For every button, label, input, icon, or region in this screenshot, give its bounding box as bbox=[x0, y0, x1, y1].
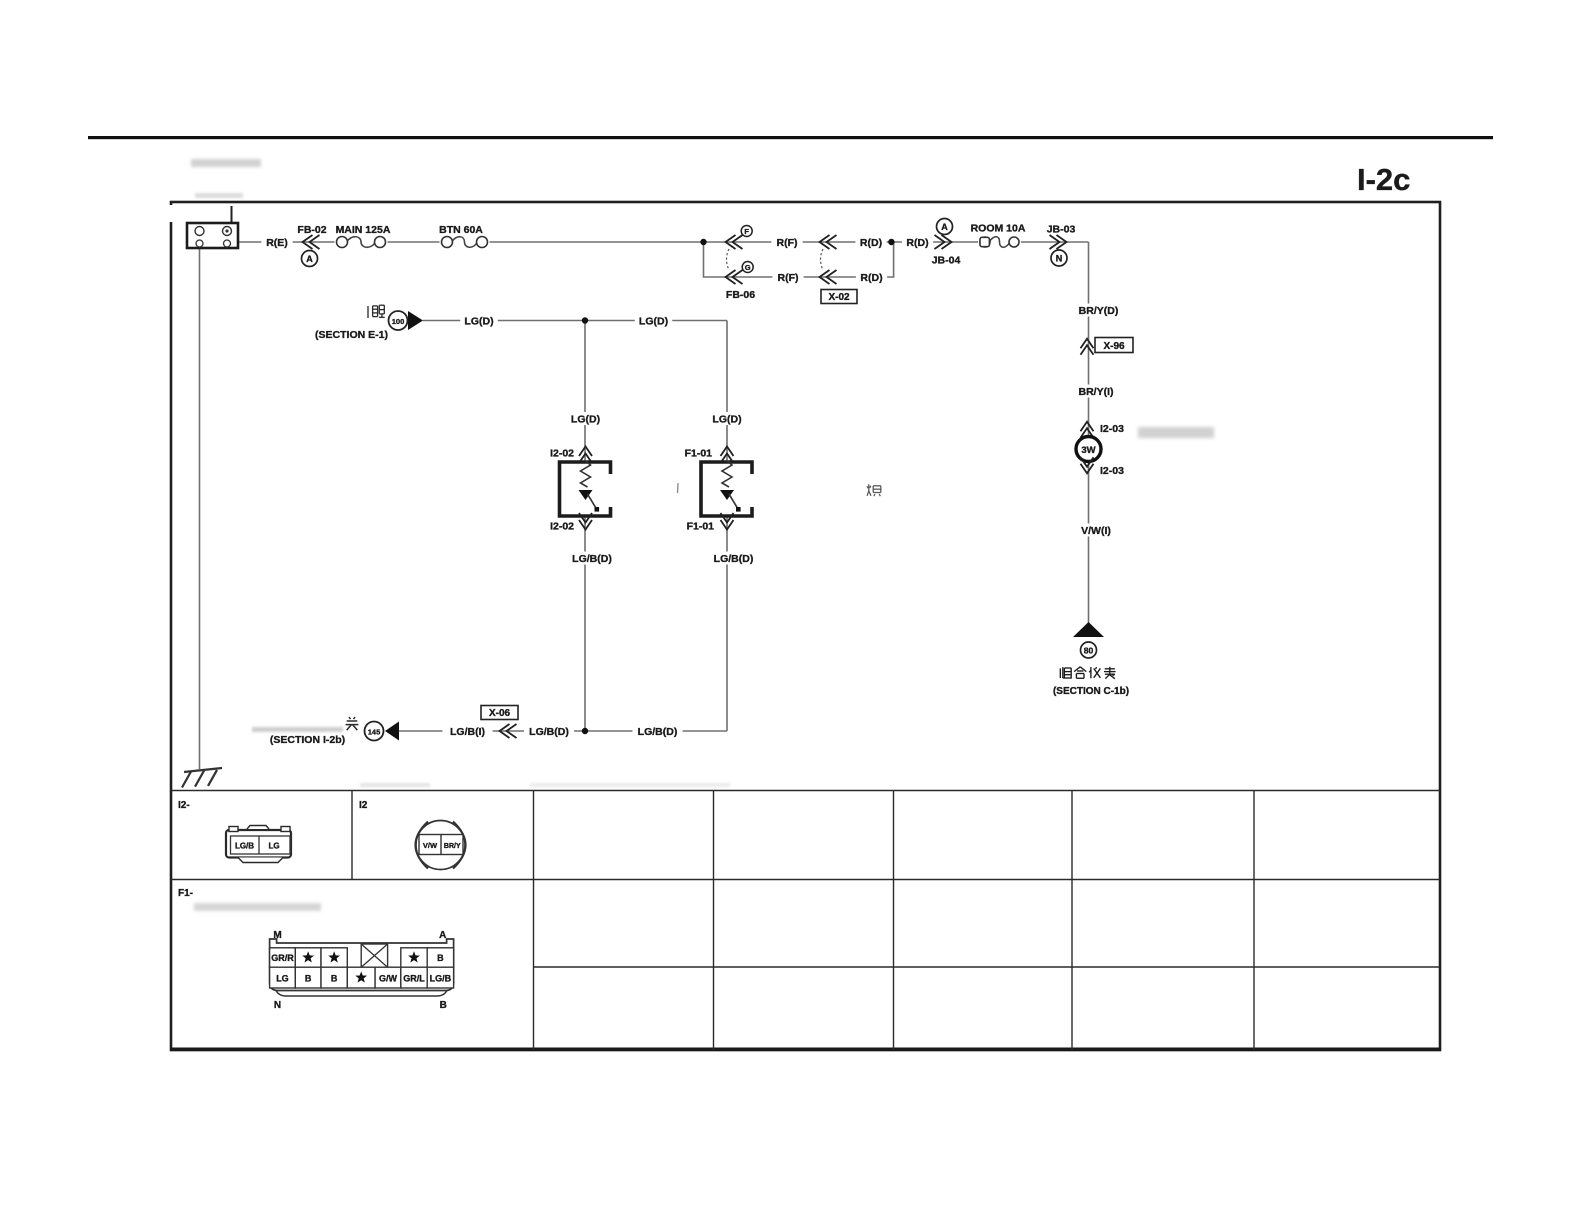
svg-text:I2-02: I2-02 bbox=[550, 448, 574, 460]
svg-text:LG: LG bbox=[268, 842, 279, 851]
svg-text:100: 100 bbox=[392, 317, 405, 326]
svg-text:B: B bbox=[305, 974, 312, 984]
svg-text:(SECTION E-1): (SECTION E-1) bbox=[315, 329, 388, 341]
svg-text:GR/R: GR/R bbox=[271, 953, 294, 963]
svg-text:3W: 3W bbox=[1081, 445, 1095, 456]
svg-text:X-06: X-06 bbox=[489, 708, 511, 719]
svg-text:LG/B: LG/B bbox=[235, 842, 254, 851]
svg-text:LG/B(D): LG/B(D) bbox=[572, 553, 612, 565]
svg-text:F: F bbox=[744, 227, 749, 236]
svg-text:BR/Y(I): BR/Y(I) bbox=[1079, 386, 1114, 398]
svg-text:F1-: F1- bbox=[178, 888, 193, 899]
svg-text:R(D): R(D) bbox=[860, 237, 882, 249]
svg-text:R(F): R(F) bbox=[777, 237, 798, 249]
svg-text:JB-04: JB-04 bbox=[932, 255, 961, 267]
svg-text:B: B bbox=[440, 1000, 447, 1011]
svg-text:G: G bbox=[745, 263, 751, 272]
svg-text:F1-01: F1-01 bbox=[685, 448, 713, 460]
svg-text:R(D): R(D) bbox=[860, 272, 882, 284]
svg-text:LG(D): LG(D) bbox=[464, 315, 493, 327]
svg-text:LG/B(D): LG/B(D) bbox=[529, 726, 569, 738]
svg-text:(SECTION C-1b): (SECTION C-1b) bbox=[1053, 686, 1129, 697]
svg-text:LG/B(I): LG/B(I) bbox=[450, 726, 485, 738]
svg-text:V/W: V/W bbox=[423, 841, 438, 850]
svg-text:V/W(I): V/W(I) bbox=[1081, 525, 1111, 537]
svg-text:X-02: X-02 bbox=[828, 292, 850, 303]
svg-text:A: A bbox=[941, 222, 948, 232]
svg-text:X-96: X-96 bbox=[1103, 341, 1125, 352]
svg-text:LG/B(D): LG/B(D) bbox=[714, 553, 754, 565]
svg-text:R(E): R(E) bbox=[266, 237, 288, 249]
svg-text:B: B bbox=[437, 953, 444, 963]
svg-text:MAIN 125A: MAIN 125A bbox=[336, 224, 391, 236]
svg-text:R(D): R(D) bbox=[906, 237, 928, 249]
svg-text:I2-03: I2-03 bbox=[1100, 465, 1124, 477]
svg-text:BR/Y: BR/Y bbox=[444, 843, 461, 850]
svg-text:I2-02: I2-02 bbox=[550, 521, 574, 533]
svg-text:ROOM 10A: ROOM 10A bbox=[971, 223, 1026, 235]
svg-text:F1-01: F1-01 bbox=[687, 521, 715, 533]
svg-text:I-2c: I-2c bbox=[1357, 162, 1410, 197]
svg-text:A: A bbox=[306, 254, 313, 264]
svg-text:FB-02: FB-02 bbox=[297, 224, 326, 236]
svg-text:R(F): R(F) bbox=[778, 272, 799, 284]
svg-text:I2-: I2- bbox=[178, 800, 190, 811]
svg-text:FB-06: FB-06 bbox=[726, 289, 755, 301]
svg-text:LG: LG bbox=[276, 974, 289, 984]
svg-text:B: B bbox=[331, 974, 338, 984]
svg-text:GR/L: GR/L bbox=[403, 974, 425, 984]
svg-text:BTN 60A: BTN 60A bbox=[439, 224, 483, 236]
svg-text:LG/B: LG/B bbox=[430, 974, 452, 984]
svg-text:LG(D): LG(D) bbox=[571, 413, 600, 425]
svg-text:JB-03: JB-03 bbox=[1047, 224, 1076, 236]
svg-text:I2: I2 bbox=[359, 800, 368, 811]
svg-text:A: A bbox=[439, 930, 446, 941]
svg-text:N: N bbox=[274, 1000, 281, 1011]
svg-text:80: 80 bbox=[1084, 646, 1094, 656]
svg-text:LG(D): LG(D) bbox=[639, 315, 668, 327]
svg-text:145: 145 bbox=[368, 728, 381, 737]
svg-text:N: N bbox=[1056, 253, 1063, 263]
svg-text:I2-03: I2-03 bbox=[1100, 423, 1124, 435]
svg-text:G/W: G/W bbox=[379, 974, 398, 984]
svg-text:BR/Y(D): BR/Y(D) bbox=[1079, 305, 1119, 317]
svg-text:(SECTION I-2b): (SECTION I-2b) bbox=[270, 734, 345, 746]
svg-text:LG(D): LG(D) bbox=[712, 413, 741, 425]
svg-text:LG/B(D): LG/B(D) bbox=[638, 726, 678, 738]
